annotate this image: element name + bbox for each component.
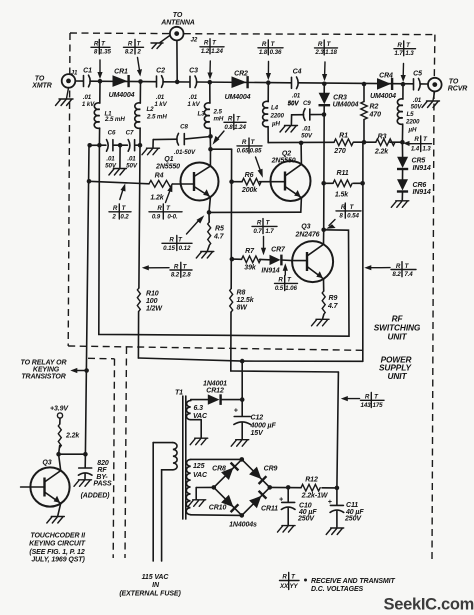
ground at RCVR jack [422, 92, 440, 108]
svg-text:R7: R7 [245, 248, 255, 255]
svg-text:8W: 8W [237, 304, 249, 311]
svg-text:200k: 200k [241, 187, 258, 194]
capacitor C7 [126, 130, 138, 170]
svg-text:UM4004: UM4004 [333, 102, 359, 109]
diode CR7 1N914 [261, 246, 292, 274]
resistor R4 1.2k [149, 173, 172, 202]
svg-text:1.18: 1.18 [325, 49, 337, 56]
resistor R10 100 1/2W [137, 288, 163, 312]
svg-text:R: R [242, 139, 247, 146]
svg-text:R: R [282, 574, 287, 581]
resistor R6 200k [232, 172, 271, 194]
svg-text:UNIT: UNIT [388, 332, 408, 342]
svg-text:R: R [94, 41, 99, 48]
svg-text:D.C. VOLTAGES: D.C. VOLTAGES [311, 586, 364, 593]
resistor 2.2k keying [58, 424, 80, 454]
svg-text:2200: 2200 [270, 112, 285, 119]
svg-text:R11: R11 [336, 170, 348, 177]
capacitor C1 [82, 68, 95, 109]
svg-text:R6: R6 [245, 172, 254, 179]
ground at C11 [326, 528, 344, 535]
ground at R5 [196, 252, 214, 259]
svg-text:2.5 mH: 2.5 mH [104, 116, 125, 123]
svg-text:+: + [328, 499, 332, 506]
measurement table R|T 2|0.2 with arrow [109, 184, 131, 221]
junction dots keying row [56, 452, 87, 457]
resistor R12 2.2k-1W [301, 477, 329, 500]
svg-text:R: R [365, 394, 370, 401]
svg-text:8.2: 8.2 [171, 272, 180, 279]
svg-text:R5: R5 [215, 226, 224, 233]
svg-text:(EXTERNAL FUSE): (EXTERNAL FUSE) [119, 590, 181, 597]
capacitor C4 [288, 69, 302, 108]
svg-text:820: 820 [97, 460, 109, 467]
svg-text:R: R [397, 42, 402, 49]
measurement table R|T 2.3|1.18 [314, 40, 337, 56]
diode CR1 UM4004 [109, 69, 135, 99]
svg-text:1N4004s: 1N4004s [229, 522, 257, 529]
wire feed rail to CR12 node [241, 361, 243, 400]
svg-text:R: R [169, 237, 174, 244]
transistor Q1 2N5550 [155, 149, 218, 212]
transformer T1 primary winding 115VAC [153, 443, 177, 561]
capacitor C6 [105, 130, 117, 170]
junction dot relay tap [84, 368, 89, 373]
svg-text:TO: TO [449, 79, 459, 86]
svg-text:0.15: 0.15 [163, 245, 175, 252]
arrow to CR2-C4 node [266, 62, 271, 81]
wire x363 rail [362, 142, 364, 361]
svg-text:1.5k: 1.5k [335, 191, 349, 198]
wire bridge plus row [270, 486, 337, 489]
capacitor C12 4000uF [234, 400, 277, 439]
measurement table R|T 8.2|2 [124, 40, 144, 56]
connector J2 TO ANTENNA [160, 12, 198, 44]
svg-text:2.2k: 2.2k [65, 432, 80, 439]
svg-text:143: 143 [360, 402, 371, 409]
ground at J1 [56, 88, 74, 106]
svg-text:50V: 50V [301, 132, 313, 139]
svg-text:J2: J2 [191, 37, 198, 44]
svg-text:C9: C9 [303, 100, 311, 107]
label 115 VAC IN (EXTERNAL FUSE) [119, 574, 181, 598]
svg-text:0.12: 0.12 [179, 245, 191, 252]
inductor L2 2.5mH [135, 82, 168, 146]
capacitor C9 [288, 100, 324, 140]
legend R|T XX|YY table [279, 573, 299, 590]
svg-text:C3: C3 [189, 68, 198, 75]
diode CR3 UM4004 shunt [319, 84, 359, 230]
arrow to C3-CR2 node [207, 61, 212, 80]
svg-text:VAC: VAC [193, 413, 208, 420]
junction dot R7 tap [230, 257, 235, 262]
capacitor C8 [153, 124, 211, 156]
measurement table R|T 143|175 with arrow [341, 393, 384, 410]
diode CR12 1N4001 [203, 380, 242, 405]
svg-text:270: 270 [333, 148, 346, 155]
transformer T1 core [175, 390, 186, 520]
inductor L3 2.5mH [197, 82, 223, 149]
measurement table R|T 0.15|0.12 with arrow [162, 215, 204, 252]
svg-text:4000 µF: 4000 µF [250, 422, 277, 429]
ground at C12 [231, 440, 249, 447]
svg-text:L3: L3 [197, 111, 205, 118]
junction dots DC output row [286, 485, 339, 490]
junction dots R6 and collectors [229, 140, 404, 184]
svg-text:2N5550: 2N5550 [155, 163, 180, 170]
svg-text:CR1: CR1 [114, 69, 128, 76]
svg-text:CR8: CR8 [212, 466, 226, 473]
svg-text:mH: mH [214, 115, 224, 122]
svg-text:4.7: 4.7 [327, 303, 339, 310]
svg-text:470: 470 [369, 112, 382, 119]
svg-text:UM4004: UM4004 [225, 94, 251, 101]
svg-text:1.3: 1.3 [405, 50, 414, 57]
svg-text:IN914: IN914 [413, 189, 431, 196]
ground at C9 [280, 126, 298, 133]
svg-text:2.2k-1W: 2.2k-1W [301, 492, 329, 499]
resistor R9 4.7 [322, 291, 338, 318]
ground at C10 [278, 526, 296, 533]
resistor R8 12.5k 8W [230, 289, 255, 312]
svg-text:115 VAC: 115 VAC [142, 574, 170, 581]
junction dot base line [87, 179, 92, 184]
svg-text:(ADDED): (ADDED) [81, 493, 111, 500]
ground at 6.3VAC winding [190, 438, 208, 445]
junction dot Q3 collector [321, 228, 326, 233]
svg-text:1.7: 1.7 [265, 228, 274, 235]
svg-text:CR11: CR11 [261, 506, 278, 513]
svg-text:PASS: PASS [93, 481, 112, 488]
measurement table R|T 0.65|0.85 with arrow [237, 138, 263, 178]
svg-text:µH: µH [271, 121, 280, 128]
svg-text:1 kV: 1 kV [154, 101, 167, 108]
svg-text:R4: R4 [155, 173, 164, 180]
svg-text:µH: µH [408, 127, 417, 134]
svg-text:XMTR: XMTR [31, 83, 51, 90]
transistor Q3 2N2476 [292, 223, 333, 291]
svg-text:R: R [157, 205, 162, 212]
svg-text:1.06: 1.06 [285, 285, 297, 292]
resistor R11 1.5k [324, 170, 363, 198]
svg-text:1/2W: 1/2W [146, 305, 163, 312]
terminal +3.9V [50, 405, 69, 424]
svg-text:UNIT: UNIT [388, 371, 408, 381]
svg-text:R: R [414, 136, 419, 143]
svg-text:L5: L5 [407, 111, 415, 118]
wire J2 antenna drop [176, 41, 178, 82]
ground at R9 [312, 319, 330, 326]
svg-text:0.65: 0.65 [237, 147, 249, 154]
svg-text:J1: J1 [71, 70, 78, 77]
svg-text:1.4: 1.4 [411, 146, 420, 153]
dashed border RF/PSU divider [68, 346, 362, 350]
svg-text:1.2k: 1.2k [150, 195, 164, 202]
capacitor C10 40uF [279, 487, 317, 524]
wire main bus [76, 81, 428, 84]
svg-text:R10: R10 [146, 291, 159, 298]
svg-text:YY: YY [289, 583, 298, 590]
diode CR5 1N914 [397, 142, 431, 179]
wire bridge minus to ground [196, 487, 214, 498]
svg-text:50V: 50V [126, 162, 138, 169]
svg-text:CR3: CR3 [333, 94, 347, 101]
svg-text:T1: T1 [175, 390, 183, 397]
measurement table R|T 8.2|7.4 with arrow [364, 262, 416, 278]
junction dots L3 rail [208, 134, 213, 151]
wire base line R4 [89, 181, 181, 184]
svg-text:TO: TO [35, 75, 45, 82]
svg-text:C2: C2 [156, 68, 165, 75]
junction dots bridge corners [212, 457, 273, 518]
svg-text:CR4: CR4 [379, 73, 393, 80]
connector TO RCVR [428, 78, 467, 93]
svg-text:2: 2 [136, 49, 141, 56]
wire keying collector row [59, 453, 86, 455]
svg-text:15V: 15V [251, 430, 265, 437]
note TOUCHCODER keying circuit [29, 532, 86, 563]
bridge rectifier CR8-CR11 1N4004s [209, 459, 278, 528]
svg-text:R: R [204, 40, 209, 47]
junction dots on bus [98, 79, 406, 87]
transistor Q3 keying [21, 454, 70, 515]
svg-text:CR5: CR5 [412, 157, 426, 164]
svg-text:R: R [278, 277, 283, 284]
label RF SWITCHING UNIT [374, 314, 421, 342]
svg-text:RCVR: RCVR [448, 86, 467, 93]
svg-text:R3: R3 [378, 134, 387, 141]
svg-text:0.36: 0.36 [270, 49, 282, 56]
inductor L1 2.5mH [94, 81, 125, 145]
svg-text:C1: C1 [83, 68, 92, 75]
svg-text:Q3: Q3 [301, 223, 310, 230]
dashed border PSU channel left [113, 359, 114, 558]
svg-text:Q3: Q3 [42, 459, 51, 466]
junction dots R11 row [321, 181, 365, 186]
ground at C8 [142, 148, 160, 155]
svg-text:100: 100 [146, 298, 158, 305]
svg-text:2.3: 2.3 [314, 49, 324, 56]
ground at J2 [151, 36, 170, 49]
svg-text:L2: L2 [147, 106, 155, 113]
svg-text:0.9: 0.9 [152, 213, 161, 220]
svg-text:.01: .01 [83, 94, 92, 101]
svg-text:C12: C12 [251, 414, 264, 421]
dashed border PSU channel right [125, 347, 127, 558]
svg-text:0.85: 0.85 [250, 147, 262, 154]
resistor R2 470 [361, 84, 381, 142]
wire keyed line to relay [85, 145, 89, 454]
junction dot Q1 emitter [207, 210, 212, 215]
arrow to CR1-C2 node [137, 58, 142, 77]
svg-text:1.24: 1.24 [234, 124, 246, 131]
svg-text:L4: L4 [271, 105, 279, 112]
svg-text:R: R [257, 220, 262, 227]
svg-text:2.5 mH: 2.5 mH [146, 114, 167, 121]
svg-text:0.8: 0.8 [224, 124, 233, 131]
junction dot C9 tap [322, 112, 327, 117]
svg-text:VAC: VAC [193, 472, 208, 479]
svg-text:50V: 50V [288, 100, 300, 107]
resistor R5 4.7 [208, 212, 225, 250]
dashed border RF unit right upper [433, 35, 436, 78]
wire y142 line L4 to R3 [268, 141, 402, 143]
svg-text:R2: R2 [370, 104, 379, 111]
measurement table R|T 0.5|1.06 with arrow [275, 263, 298, 292]
transformer T1 secondary 125VAC [186, 459, 242, 515]
svg-text:R: R [174, 263, 179, 270]
svg-text:XX: XX [279, 583, 289, 590]
svg-text:0.5: 0.5 [275, 285, 284, 292]
svg-text:2N5550: 2N5550 [271, 158, 296, 165]
svg-text:1.2: 1.2 [201, 48, 210, 55]
svg-text:KEYING CIRCUIT: KEYING CIRCUIT [29, 541, 86, 548]
svg-text:TO RELAY OR: TO RELAY OR [21, 359, 67, 366]
svg-text:1 kV: 1 kV [82, 101, 95, 108]
label POWER SUPPLY UNIT [379, 354, 413, 381]
svg-text:R: R [128, 41, 133, 48]
transistor Q2 2N5550 [271, 143, 311, 212]
measurement table R|T 1.2|1.24 [200, 39, 224, 55]
capacitor C2 [154, 68, 167, 108]
ground at keying Q3 emitter [47, 517, 65, 524]
svg-text:7.4: 7.4 [404, 271, 413, 278]
svg-text:2200: 2200 [405, 119, 420, 126]
arrow to CR4-C5 node [401, 64, 406, 83]
svg-text:R: R [228, 116, 233, 123]
svg-text:CR12: CR12 [206, 387, 224, 394]
svg-text:RECEIVE AND TRANSMIT: RECEIVE AND TRANSMIT [311, 578, 396, 585]
svg-text:Q1: Q1 [164, 156, 173, 163]
svg-text:1.7: 1.7 [394, 50, 403, 57]
svg-text:CR2: CR2 [234, 71, 248, 78]
svg-text:0.54: 0.54 [347, 212, 359, 219]
svg-text:IN914: IN914 [413, 165, 431, 172]
svg-text:TOUCHCODER II: TOUCHCODER II [30, 532, 86, 539]
svg-text:50V: 50V [411, 104, 423, 111]
svg-text:175: 175 [372, 402, 383, 409]
svg-text:R8: R8 [237, 290, 246, 297]
ground at bridge minus [188, 500, 206, 507]
dashed border RF unit left [68, 33, 70, 346]
svg-text:2.8: 2.8 [181, 272, 191, 279]
svg-text:R12: R12 [305, 477, 318, 484]
svg-text:2.2k: 2.2k [374, 148, 389, 155]
svg-text:R: R [262, 41, 267, 48]
legend text receive and transmit [304, 578, 396, 593]
connector J1 TO XMTR [31, 70, 78, 90]
svg-text:6.3: 6.3 [194, 405, 204, 412]
svg-text:8.2: 8.2 [125, 49, 134, 56]
svg-text:4.7: 4.7 [213, 234, 225, 241]
svg-text:1N4001: 1N4001 [203, 380, 227, 387]
svg-text:R: R [396, 263, 401, 270]
measurement table R|T 8.2|2.8 with arrow [142, 262, 192, 278]
svg-text:12.5k: 12.5k [237, 297, 255, 304]
diode CR6 1N914 [397, 179, 431, 200]
svg-text:2N2476: 2N2476 [295, 232, 320, 239]
svg-text:0-0.: 0-0. [167, 213, 178, 220]
svg-text:0.7: 0.7 [253, 228, 262, 235]
svg-text:CR7: CR7 [271, 246, 286, 253]
resistor R3 2.2k [374, 134, 395, 156]
node TO RELAY arrow [21, 359, 85, 380]
measurement table R|T 8|0.54 with arrow [326, 203, 361, 229]
svg-text:0.2: 0.2 [120, 213, 129, 220]
svg-text:250V: 250V [344, 516, 362, 523]
capacitor C3 [187, 68, 200, 108]
svg-text:39k: 39k [244, 264, 257, 271]
svg-text:250V: 250V [297, 515, 315, 522]
svg-text:1.35: 1.35 [99, 49, 111, 56]
svg-text:UM4004: UM4004 [109, 92, 135, 99]
dashed border RF unit top-right segment [184, 33, 435, 36]
transformer T1 secondary 6.3VAC [186, 400, 208, 438]
svg-text:TO: TO [173, 12, 183, 19]
wire collector jog L3 to x231 rail [211, 148, 232, 150]
svg-text:ANTENNA: ANTENNA [160, 20, 195, 27]
resistor R7 39k [232, 248, 270, 271]
svg-text:.01: .01 [292, 93, 301, 100]
svg-text:+: + [279, 496, 283, 503]
measurement table R|T 0.8|1.24 with arrow [213, 115, 247, 145]
svg-text:TRANSISTOR: TRANSISTOR [21, 374, 65, 381]
measurement table R|T 1.8|0.36 [258, 40, 283, 56]
wire C6/C7 row [90, 145, 140, 167]
svg-text:C6: C6 [108, 130, 116, 137]
wire R10 rail and relay feed [138, 145, 362, 361]
svg-text:8.2: 8.2 [392, 271, 401, 278]
junction dots C6 C7 row [87, 143, 142, 148]
svg-text:R: R [318, 41, 323, 48]
capacitor C11 40uF [328, 488, 365, 527]
wire emitter bus Q1-Q2 [209, 211, 301, 213]
svg-text:KEYING: KEYING [33, 366, 60, 373]
svg-text:R9: R9 [329, 295, 338, 302]
arrow to J1-C1 node [97, 60, 102, 79]
svg-text:1.24: 1.24 [211, 48, 223, 55]
capacitor C5 [411, 71, 423, 111]
svg-text:(SEE FIG. 1, P. 12: (SEE FIG. 1, P. 12 [29, 549, 84, 556]
measurement table R|T 0.7|1.7 with arrow [252, 219, 277, 256]
svg-text:IN914: IN914 [261, 268, 279, 275]
junction dots feed line [240, 359, 245, 402]
svg-text:UM4004: UM4004 [370, 93, 396, 100]
svg-text:1 kV: 1 kV [187, 101, 200, 108]
svg-text:125: 125 [193, 463, 205, 470]
inductor L4 2200uH [263, 83, 285, 143]
svg-text:2: 2 [111, 213, 116, 220]
ground at CR6 [391, 201, 409, 208]
svg-text:SeekIC.com: SeekIC.com [384, 596, 474, 614]
svg-text:R1: R1 [339, 133, 348, 140]
inductor L5 2200uH [397, 84, 420, 142]
measurement table R|T 8|1.35 [91, 40, 111, 56]
svg-text:+3.9V: +3.9V [50, 405, 69, 412]
wire ground-return net left [99, 145, 349, 336]
diode CR2 UM4004 [225, 71, 251, 101]
svg-text:C5: C5 [413, 71, 422, 78]
svg-text:Q2: Q2 [282, 151, 291, 158]
svg-text:JULY, 1969 QST): JULY, 1969 QST) [31, 557, 85, 564]
svg-text:1.8: 1.8 [259, 49, 268, 56]
diode CR4 UM4004 [370, 73, 396, 101]
ground between C6 C7 [109, 169, 127, 176]
svg-text:C7: C7 [126, 130, 134, 137]
dashed border PSU channel stub [88, 357, 115, 360]
svg-text:.01-50V: .01-50V [174, 149, 196, 156]
capacitor 820 RF bypass [78, 454, 112, 499]
